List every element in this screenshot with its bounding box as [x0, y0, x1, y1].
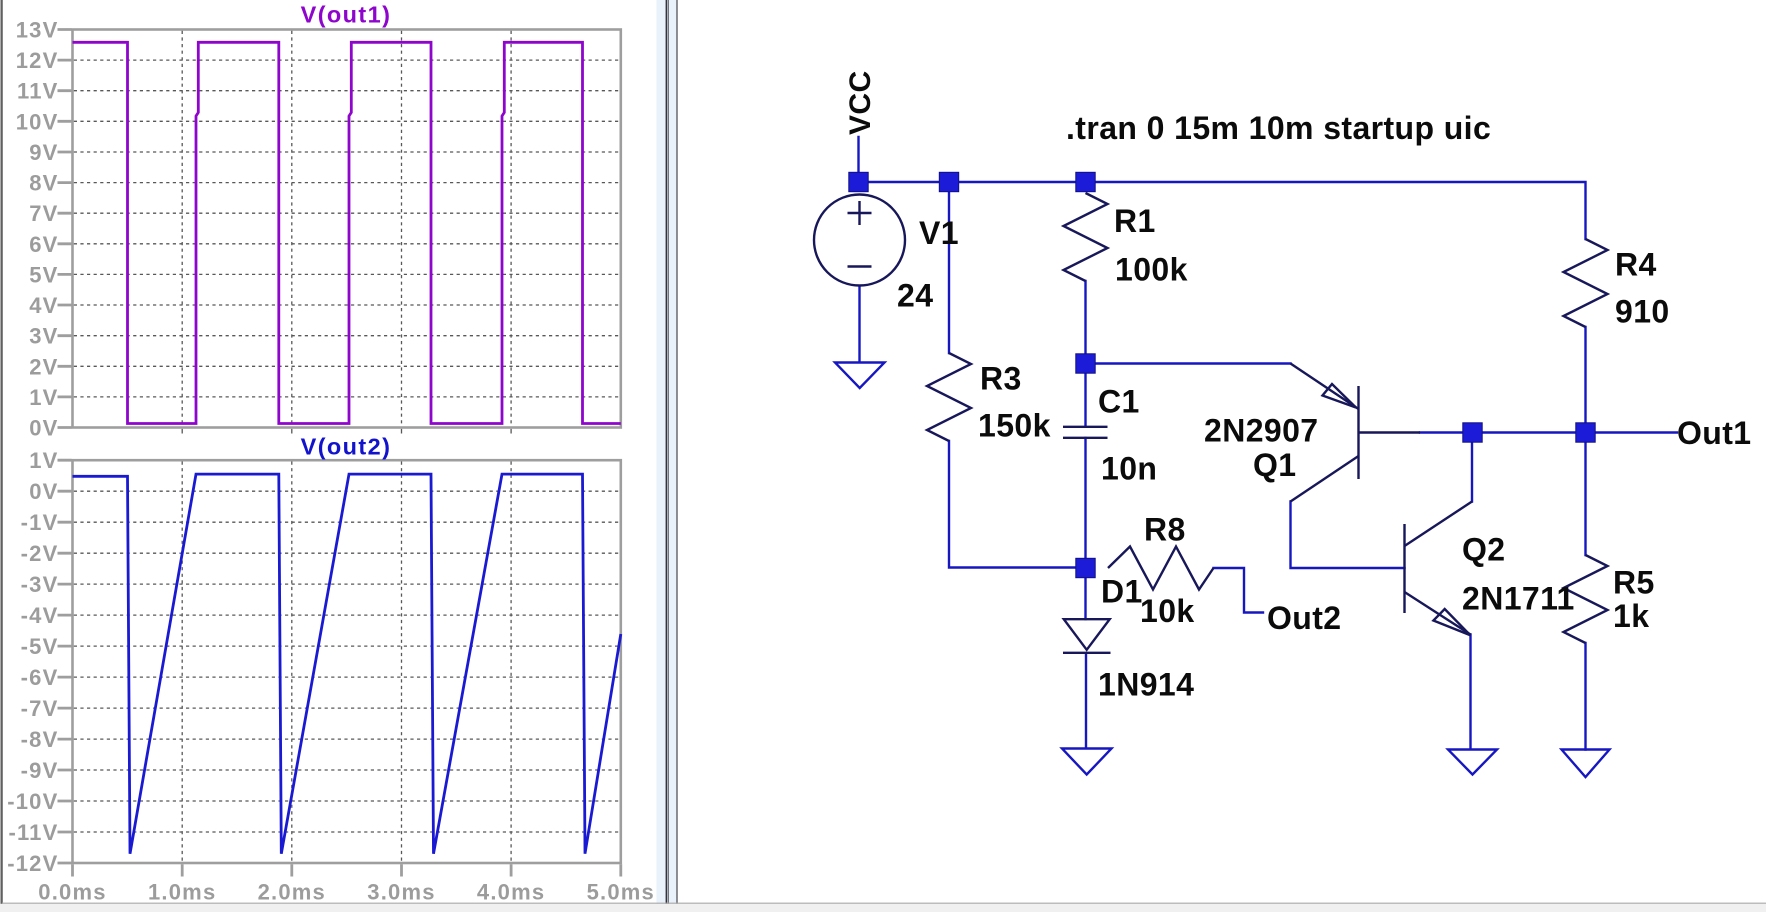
svg-text:4V: 4V	[29, 293, 58, 318]
svg-text:13V: 13V	[16, 18, 59, 43]
svg-text:.tran 0 15m 10m startup uic: .tran 0 15m 10m startup uic	[1066, 110, 1491, 146]
svg-text:2N2907: 2N2907	[1204, 413, 1319, 449]
svg-text:5.0ms: 5.0ms	[587, 880, 655, 905]
svg-text:910: 910	[1615, 294, 1670, 330]
svg-text:0.0ms: 0.0ms	[38, 880, 106, 905]
svg-text:-1V: -1V	[21, 510, 59, 535]
svg-text:-10V: -10V	[7, 789, 58, 814]
svg-text:8V: 8V	[29, 171, 58, 196]
svg-text:-8V: -8V	[21, 727, 59, 752]
svg-text:3V: 3V	[29, 324, 58, 349]
svg-text:V1: V1	[919, 215, 959, 251]
svg-text:3.0ms: 3.0ms	[367, 880, 435, 905]
svg-text:VCC: VCC	[844, 70, 877, 135]
svg-text:0V: 0V	[29, 479, 58, 504]
svg-text:-7V: -7V	[21, 696, 59, 721]
svg-text:V(out2): V(out2)	[301, 434, 392, 460]
svg-text:4.0ms: 4.0ms	[477, 880, 545, 905]
svg-text:2V: 2V	[29, 354, 58, 379]
svg-text:C1: C1	[1098, 384, 1140, 420]
svg-text:0V: 0V	[29, 416, 58, 441]
svg-text:7V: 7V	[29, 201, 58, 226]
svg-text:2.0ms: 2.0ms	[258, 880, 326, 905]
svg-text:-3V: -3V	[21, 572, 59, 597]
svg-text:12V: 12V	[16, 48, 59, 73]
svg-text:1.0ms: 1.0ms	[148, 880, 216, 905]
svg-text:1V: 1V	[29, 448, 58, 473]
svg-text:10n: 10n	[1101, 451, 1157, 487]
svg-text:-9V: -9V	[21, 758, 59, 783]
svg-text:-5V: -5V	[21, 634, 59, 659]
svg-text:V(out1): V(out1)	[301, 2, 392, 28]
svg-text:Out1: Out1	[1677, 415, 1752, 451]
svg-text:R5: R5	[1613, 565, 1655, 601]
svg-text:9V: 9V	[29, 140, 58, 165]
svg-text:6V: 6V	[29, 232, 58, 257]
svg-text:24: 24	[897, 278, 933, 314]
svg-text:R4: R4	[1615, 247, 1657, 283]
svg-text:-11V: -11V	[8, 820, 58, 845]
svg-text:-4V: -4V	[21, 603, 59, 628]
svg-text:1k: 1k	[1613, 598, 1649, 634]
svg-text:D1: D1	[1101, 574, 1143, 610]
svg-text:10V: 10V	[16, 109, 59, 134]
svg-text:Out2: Out2	[1267, 600, 1342, 636]
svg-text:R1: R1	[1114, 203, 1156, 239]
svg-text:1N914: 1N914	[1098, 667, 1194, 703]
svg-text:100k: 100k	[1115, 252, 1188, 288]
svg-text:10k: 10k	[1140, 593, 1195, 629]
svg-text:R8: R8	[1144, 512, 1186, 548]
svg-text:Q1: Q1	[1253, 447, 1297, 483]
svg-text:150k: 150k	[978, 408, 1051, 444]
svg-text:1V: 1V	[29, 385, 58, 410]
svg-text:2N1711: 2N1711	[1462, 581, 1575, 617]
svg-text:5V: 5V	[29, 262, 58, 287]
svg-text:Q2: Q2	[1462, 532, 1506, 568]
svg-text:-2V: -2V	[21, 541, 59, 566]
svg-text:-6V: -6V	[21, 665, 59, 690]
svg-text:-12V: -12V	[7, 851, 58, 876]
svg-text:11V: 11V	[17, 79, 59, 104]
svg-text:R3: R3	[980, 361, 1022, 397]
